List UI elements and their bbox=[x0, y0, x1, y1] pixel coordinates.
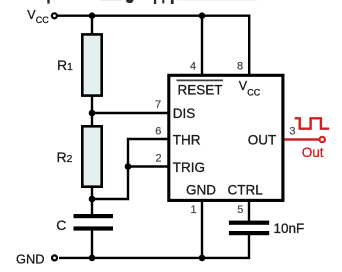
capacitor C bbox=[74, 214, 114, 218]
node: junction dot on rail at pin 4 bbox=[199, 12, 206, 19]
node: junction R2/C/THR-TRIG net bbox=[89, 196, 96, 203]
svg-text:GND: GND bbox=[186, 182, 216, 197]
capacitor 10nF bbox=[229, 221, 269, 225]
resistor R2 bbox=[82, 126, 101, 186]
svg-text:3: 3 bbox=[289, 126, 295, 138]
svg-text:7: 7 bbox=[155, 99, 161, 111]
terminal VCC bbox=[52, 13, 57, 18]
wire: THR/TRIG net bbox=[92, 139, 168, 199]
terminal GND bbox=[52, 255, 57, 260]
svg-text:Out: Out bbox=[302, 145, 324, 160]
svg-text:2: 2 bbox=[156, 153, 162, 165]
node: junction on THR/TRIG net at pin 2 bbox=[125, 163, 132, 170]
svg-text:CC: CC bbox=[36, 15, 49, 25]
wire: pin 5 stub bbox=[248, 200, 250, 221]
wire: OUT net (red) bbox=[285, 138, 320, 140]
svg-text:1: 1 bbox=[191, 204, 197, 216]
node: junction dot on rail above R1 bbox=[89, 12, 96, 19]
svg-text:RESET: RESET bbox=[178, 83, 223, 98]
wire: pin 7 (DIS) bbox=[92, 112, 168, 114]
wire: R2 bottom to C top bbox=[91, 186, 93, 215]
wire: ground rail bbox=[59, 235, 249, 258]
svg-text:CTRL: CTRL bbox=[228, 182, 264, 197]
svg-text:1: 1 bbox=[67, 61, 73, 73]
svg-text:C: C bbox=[56, 217, 66, 233]
wire: C bottom to ground rail bbox=[91, 230, 93, 258]
wire: pin 2 (TRIG) bbox=[128, 165, 168, 167]
wire: pin 1 stub bbox=[201, 200, 203, 258]
svg-text:OUT: OUT bbox=[248, 132, 277, 147]
node: junction R1/R2/pin7 bbox=[89, 110, 96, 117]
svg-text:R: R bbox=[57, 149, 67, 165]
svg-text:CC: CC bbox=[247, 87, 260, 97]
node: junction on ground rail below C bbox=[89, 255, 96, 262]
node: junction on ground rail at pin 1 bbox=[199, 255, 206, 262]
svg-text:DIS: DIS bbox=[173, 106, 196, 121]
svg-text:THR: THR bbox=[173, 133, 201, 148]
svg-text:8: 8 bbox=[237, 61, 243, 73]
svg-text:2: 2 bbox=[67, 153, 73, 165]
svg-text:TRIG: TRIG bbox=[173, 160, 205, 175]
wire: R1 bottom to R2 top bbox=[91, 95, 93, 126]
svg-text:5: 5 bbox=[237, 204, 243, 216]
square wave icon (red) bbox=[295, 118, 330, 128]
wire: rail to R1 top bbox=[91, 16, 93, 34]
resistor R1 bbox=[82, 34, 101, 95]
svg-text:GND: GND bbox=[16, 251, 44, 266]
svg-text:4: 4 bbox=[190, 61, 196, 73]
svg-text:10nF: 10nF bbox=[274, 221, 305, 236]
wire: pin 4 stub bbox=[201, 16, 203, 76]
clipped caption text fragments at top bbox=[47, 0, 257, 4]
op-amp U1: 555 timer IC body bbox=[169, 75, 283, 200]
svg-text:R: R bbox=[57, 57, 67, 73]
svg-text:6: 6 bbox=[155, 126, 161, 138]
wire: top VCC rail bbox=[57, 16, 249, 76]
terminal Out (red) bbox=[320, 137, 325, 142]
